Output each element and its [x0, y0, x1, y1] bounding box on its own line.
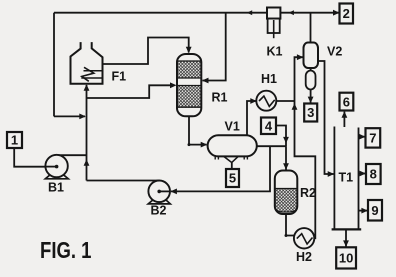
- junction dot at R2 outlet corner: [285, 234, 288, 237]
- arrow into box 6: [342, 111, 348, 118]
- wire F1 outlet loop over to R1 top: [103, 38, 189, 65]
- column T1 bottom line: [332, 228, 362, 230]
- svg-text:R1: R1: [212, 91, 228, 105]
- arrow on riser to V2: [292, 103, 298, 110]
- arrow into box 8: [359, 171, 366, 177]
- heat exchanger H1: [256, 91, 276, 111]
- svg-text:V1: V1: [225, 120, 240, 134]
- wire riser branch to R1 left inlet: [87, 85, 171, 98]
- wire top recycle line: [54, 12, 339, 14]
- flash drum V1: [208, 135, 257, 156]
- F1 internal zigzag: [82, 67, 94, 81]
- svg-text:3: 3: [307, 105, 314, 120]
- reactor R2 shell: [275, 171, 298, 215]
- stream box 2: [340, 4, 354, 24]
- R1 lower catalyst bed: [177, 86, 201, 108]
- wire R1 bottom to V1: [189, 116, 207, 144]
- arrow into R1 top: [186, 47, 192, 54]
- F1 internal plate lines: [81, 71, 102, 78]
- svg-text:2: 2: [343, 6, 350, 21]
- svg-text:B1: B1: [48, 181, 64, 195]
- arrow into R1 side: [202, 78, 209, 84]
- pump B1: [45, 155, 67, 177]
- stream box 8: [366, 164, 381, 184]
- column T1 walls: [334, 127, 358, 229]
- wire V2 feed from top line: [310, 13, 312, 43]
- arrow loop into riser: [79, 114, 86, 120]
- R2 catalyst bed: [275, 189, 298, 213]
- wire V2 right side to column T1: [318, 61, 334, 174]
- arrow into R1 left inlet: [170, 82, 177, 88]
- stream box 9: [368, 200, 382, 221]
- svg-text:7: 7: [369, 131, 376, 146]
- svg-text:4: 4: [265, 118, 273, 133]
- wire stream 4 over and down to tee: [276, 126, 286, 147]
- arrow blob on top line after K1: [289, 10, 294, 15]
- svg-text:1: 1: [11, 133, 18, 148]
- wire B2 inlet from V1 bottoms branch: [171, 146, 270, 191]
- wire T1 side draw to box 8: [359, 173, 366, 175]
- arrow riser into F1: [84, 84, 90, 91]
- wire tee down into R2 top: [285, 146, 287, 169]
- separator V2 upper shell: [304, 43, 319, 69]
- pump B1 base: [45, 175, 68, 179]
- wire loop into feed riser: [54, 115, 85, 117]
- wire stream 1 from box to pump B1: [14, 148, 55, 167]
- stream box 10: [336, 247, 356, 268]
- svg-text:8: 8: [370, 167, 377, 182]
- arrow into H1: [250, 98, 256, 104]
- R1 upper catalyst bed: [177, 61, 201, 78]
- stream box 5: [226, 169, 239, 187]
- junction dot at R1 bottom corner: [188, 143, 191, 146]
- arrow into V1 left: [201, 142, 208, 148]
- svg-text:5: 5: [229, 171, 236, 186]
- wire feed riser up to F1: [86, 85, 88, 181]
- arrow into box 9: [361, 208, 368, 214]
- wire B2 outlet to riser: [87, 180, 160, 182]
- wire H1 outlet to riser junction: [276, 100, 294, 102]
- pump B2: [148, 181, 170, 203]
- V1 left foot: [215, 156, 218, 159]
- arrow above R2 feed tee: [283, 137, 289, 144]
- wire V2 neck: [310, 68, 312, 71]
- wire R2 bottom to H2: [286, 214, 295, 236]
- arrow into T1: [328, 171, 335, 177]
- svg-text:9: 9: [371, 203, 378, 218]
- svg-text:K1: K1: [267, 44, 283, 58]
- arrow blob on top line before K1: [247, 10, 252, 15]
- svg-text:FIG. 1: FIG. 1: [40, 237, 92, 263]
- stream box 4: [261, 118, 276, 135]
- arrow on riser: [84, 159, 90, 166]
- wire V1 funnel stub to box 5: [231, 162, 233, 169]
- wire T1 bottoms to box 10: [345, 230, 347, 247]
- K1 cylinder: [268, 19, 280, 33]
- V1 right foot: [244, 156, 247, 159]
- junction dot at T1 wall for box 7: [359, 135, 362, 138]
- heat exchanger H2: [294, 228, 314, 248]
- wire V1 right to R2 feed tee: [257, 145, 287, 147]
- wire V1 top up to H1: [247, 101, 256, 135]
- arrow into box 3: [308, 97, 314, 104]
- wire left recycle downcomer: [53, 13, 55, 117]
- svg-text:H2: H2: [296, 250, 312, 264]
- svg-text:F1: F1: [112, 70, 127, 84]
- svg-text:6: 6: [343, 94, 350, 109]
- pump B2 base: [148, 200, 170, 204]
- stream box 1: [7, 132, 22, 148]
- wire T1 side draw to box 9: [359, 210, 368, 212]
- svg-text:10: 10: [339, 251, 353, 266]
- stream box 6: [340, 93, 354, 111]
- svg-text:V2: V2: [327, 45, 342, 59]
- wire H2 up and over to V2 left inlet: [295, 57, 316, 238]
- arrow into box 10: [343, 240, 349, 247]
- reactor R1 shell: [177, 54, 201, 116]
- arrow into box 7: [359, 134, 366, 140]
- stream box 3: [304, 104, 317, 122]
- K1 piston rod: [273, 20, 275, 38]
- wire branch down to R1 side inlet: [203, 13, 226, 81]
- compressor K1 body: [267, 8, 280, 19]
- wire B1 outlet to riser: [58, 154, 87, 156]
- filter vessel F1: [71, 42, 103, 84]
- svg-text:R2: R2: [300, 186, 316, 200]
- wire T1 overhead to box 6: [343, 112, 345, 127]
- wire V2 bottom to box 3: [310, 90, 312, 103]
- V2 lower boot: [306, 71, 316, 90]
- wire T1 side draw to box 7: [359, 136, 366, 138]
- arrow into R2 top: [283, 163, 289, 170]
- stream box 7: [366, 128, 381, 147]
- arrow into V2 left: [297, 54, 304, 60]
- svg-text:B2: B2: [151, 204, 167, 218]
- V1 bottom funnel: [224, 156, 239, 162]
- svg-text:T1: T1: [339, 171, 354, 185]
- arrow into B2: [170, 189, 177, 195]
- svg-text:H1: H1: [261, 72, 277, 86]
- arrow into box 2: [333, 10, 340, 16]
